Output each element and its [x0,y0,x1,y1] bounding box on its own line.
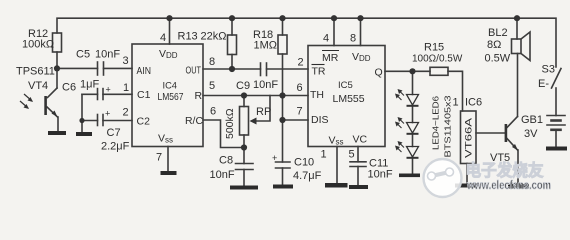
svg-text:4.7μF: 4.7μF [293,170,322,182]
svg-text:4: 4 [160,32,166,44]
svg-text:电子发烧友: 电子发烧友 [466,160,544,180]
svg-text:R15: R15 [424,42,444,54]
svg-text:+: + [106,85,111,95]
svg-text:IC4: IC4 [163,81,178,92]
svg-text:500kΩ: 500kΩ [224,108,236,139]
svg-text:+: + [272,153,277,163]
svg-text:Q: Q [375,67,383,79]
svg-text:DIS: DIS [311,114,329,126]
svg-text:10nF: 10nF [210,169,235,181]
svg-text:1: 1 [321,149,327,161]
svg-text:2: 2 [298,57,304,69]
svg-text:3: 3 [123,55,129,67]
svg-text:100kΩ: 100kΩ [22,39,54,51]
svg-text:TR: TR [312,66,326,78]
svg-text:R: R [195,90,203,102]
svg-text:www.elecfans.com: www.elecfans.com [466,178,551,192]
svg-text:IC5: IC5 [338,80,353,91]
svg-text:GB1: GB1 [521,114,543,126]
svg-text:8: 8 [350,33,356,45]
svg-text:TPS611: TPS611 [16,66,55,78]
svg-text:2.2μF: 2.2μF [101,141,130,153]
svg-text:8: 8 [209,56,215,68]
svg-text:C2: C2 [137,116,151,128]
svg-text:VT4: VT4 [28,80,48,92]
svg-text:C5: C5 [76,49,90,61]
svg-text:MR: MR [322,52,339,64]
svg-text:VC: VC [353,134,368,146]
svg-text:VT66A: VT66A [464,118,474,158]
svg-text:10nF: 10nF [95,49,120,61]
svg-text:100Ω/0.5W: 100Ω/0.5W [412,54,463,65]
svg-text:AIN: AIN [137,65,152,77]
svg-text:S3: S3 [542,64,555,76]
svg-text:LED4~LED6: LED4~LED6 [431,96,441,150]
svg-text:IC6: IC6 [465,97,482,109]
svg-text:10nF: 10nF [368,169,393,181]
svg-text:1: 1 [123,82,129,94]
svg-text:5: 5 [209,80,215,92]
svg-text:C7: C7 [107,127,121,139]
svg-text:LM567: LM567 [158,91,184,103]
svg-text:C6: C6 [62,82,76,94]
svg-text:C1: C1 [137,89,151,101]
svg-text:1: 1 [453,97,459,109]
svg-text:6: 6 [210,106,216,118]
svg-text:C10: C10 [294,157,314,169]
svg-text:OUT: OUT [186,65,202,77]
svg-text:0.5W: 0.5W [485,53,511,65]
svg-text:2: 2 [123,107,129,119]
svg-text:22kΩ: 22kΩ [201,31,227,43]
svg-text:R/C: R/C [185,115,203,127]
svg-text:R13: R13 [178,31,198,43]
svg-text:8Ω: 8Ω [487,39,501,51]
svg-text:3V: 3V [524,128,538,140]
svg-text:RP: RP [256,106,271,118]
svg-text:C9: C9 [236,80,250,92]
svg-text:TH: TH [310,89,324,101]
svg-text:10nF: 10nF [253,79,278,91]
svg-text:6: 6 [297,82,303,94]
svg-text:1MΩ: 1MΩ [254,40,278,52]
svg-text:BL2: BL2 [488,27,508,39]
svg-text:5: 5 [349,149,355,161]
svg-text:LM555: LM555 [333,93,365,105]
svg-text:7: 7 [297,106,303,118]
svg-text:+: + [105,109,110,119]
svg-text:E-: E- [538,78,549,90]
svg-text:7: 7 [156,152,162,164]
svg-text:1μF: 1μF [80,79,99,91]
svg-text:4: 4 [323,33,329,45]
svg-text:C8: C8 [219,155,233,167]
svg-text:BTS11405x3: BTS11405x3 [443,95,453,157]
